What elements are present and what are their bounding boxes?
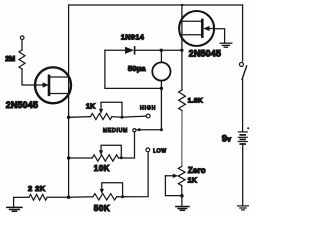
wire terminal to 2M xyxy=(21,40,23,50)
HIGH contact terminal xyxy=(146,114,150,118)
node zero pot bottom junction xyxy=(180,194,184,198)
svg-text:MEDIUM: MEDIUM xyxy=(103,128,128,134)
svg-text:Zero: Zero xyxy=(188,166,206,175)
wire 2.2K to rail xyxy=(47,196,68,198)
50K wiper loop xyxy=(102,183,123,197)
transistor Q1 2N5045 circle xyxy=(35,67,71,103)
svg-text:2N5045: 2N5045 xyxy=(189,48,221,58)
node junction rail/diode wire xyxy=(180,49,183,52)
50K wiper arrow xyxy=(101,184,103,189)
potentiometer R5 10K zigzag xyxy=(92,155,118,161)
ground (Q2 gate) xyxy=(220,43,232,47)
MEDIUM contact terminal xyxy=(133,129,136,132)
node 50K loop junction xyxy=(121,195,124,198)
transistor Q2 2N5045 circle xyxy=(179,11,214,46)
wire to left ground xyxy=(13,197,15,207)
node rail/10K junction xyxy=(67,156,70,159)
meter M1 50ua top lead xyxy=(160,50,162,62)
svg-text:50K: 50K xyxy=(94,204,110,213)
svg-text:HIGH: HIGH xyxy=(140,105,156,111)
wire zero pot bottom xyxy=(181,186,183,196)
transistor Q1 source lead xyxy=(49,93,69,95)
10K wiper arrow xyxy=(100,146,102,150)
wire rail bottom to 50K xyxy=(69,196,93,198)
wire bottom left xyxy=(14,196,29,198)
transistor Q2 gate lead with arrow xyxy=(209,28,214,30)
wire Q2 gate to ground xyxy=(214,29,225,43)
svg-text:1K: 1K xyxy=(188,176,198,185)
resistor R1 2M zigzag xyxy=(19,50,25,69)
svg-text:LOW: LOW xyxy=(153,148,167,154)
svg-text:1.8K: 1.8K xyxy=(188,97,203,104)
wire right FET drain/source column xyxy=(181,5,183,90)
wire left rail (drain-source column of Q1) xyxy=(68,5,70,197)
node rail/1K junction xyxy=(67,116,70,119)
transistor Q2 drain lead xyxy=(182,20,202,22)
wire switch to battery xyxy=(242,80,244,131)
svg-text:2M: 2M xyxy=(5,54,15,63)
diode D1 cathode bar xyxy=(134,47,136,54)
diode D1 1N914 triangle xyxy=(125,47,134,54)
wire diode-loop left side xyxy=(105,50,161,88)
svg-text:50μa: 50μa xyxy=(128,64,146,73)
meter M1 bottom lead xyxy=(160,81,162,89)
1K wiper arrow xyxy=(100,103,102,109)
node medium wire corner dot xyxy=(160,128,163,131)
wire 50K to LOW contact xyxy=(117,152,149,197)
node 1K loop junction xyxy=(121,116,124,119)
transistor Q1 gate lead with arrow xyxy=(35,84,43,86)
potentiometer R4 1K zigzag xyxy=(91,113,113,119)
transistor Q2 channel bar xyxy=(201,20,204,37)
wire rail to 10K xyxy=(69,157,93,159)
wire meter bottom down to selector pole xyxy=(136,88,161,129)
svg-text:2N5045: 2N5045 xyxy=(6,100,38,110)
meter M1 50ua circle xyxy=(152,62,170,80)
svg-text:1K: 1K xyxy=(86,102,96,111)
node diode/meter top junction xyxy=(160,49,163,52)
wire 1.8K to zero pot xyxy=(181,111,183,167)
wire rail to 1K xyxy=(69,116,91,119)
resistor R2 1.8K zigzag xyxy=(179,90,186,111)
svg-text:2 2K: 2 2K xyxy=(28,184,46,193)
ground (bottom left) xyxy=(7,207,22,211)
wire 1K to HIGH contact xyxy=(112,116,146,117)
ground (battery negative) xyxy=(238,206,249,210)
switch S1 upper contact xyxy=(242,5,244,61)
wire top rail xyxy=(69,4,243,6)
wire 2M to gate of Q1 xyxy=(22,69,35,85)
potentiometer R3 Zero 1K zigzag xyxy=(178,167,185,186)
probe input terminal xyxy=(20,36,24,40)
node meter bottom junction xyxy=(160,87,163,90)
transistor Q1 drain lead xyxy=(49,76,69,78)
battery B1 9v plates xyxy=(238,132,247,144)
wire meter node to right rail xyxy=(161,49,182,51)
resistor R7 2.2K zigzag xyxy=(29,194,47,200)
transistor Q1 channel bar xyxy=(48,76,51,95)
svg-text:10K: 10K xyxy=(94,164,110,173)
node 10K loop junction xyxy=(120,156,123,159)
battery plus mark xyxy=(247,127,249,129)
ground (center bottom) xyxy=(176,207,189,211)
LOW contact terminal xyxy=(146,148,150,152)
wire diode cathode to meter node xyxy=(135,49,162,51)
svg-text:9v: 9v xyxy=(222,134,231,145)
node top-rail / right-FET drain junction xyxy=(181,4,183,6)
wire 10K to MEDIUM contact xyxy=(119,132,135,158)
transistor Q2 source lead xyxy=(182,34,202,36)
svg-text:1N914: 1N914 xyxy=(121,33,145,42)
wire zero pot wiper to bottom xyxy=(165,176,182,196)
node rail bottom junction xyxy=(67,196,70,199)
potentiometer R6 50K zigzag xyxy=(93,194,117,200)
switch S1 blade xyxy=(242,66,247,80)
1K wiper loop xyxy=(101,102,122,117)
10K wiper loop xyxy=(101,145,121,158)
node selector pole dot xyxy=(138,128,141,131)
zero pot wiper arrow xyxy=(165,175,172,177)
diode D1 1N914 anode wire xyxy=(105,49,125,51)
wire battery to bottom ground xyxy=(242,144,244,205)
wire to center ground xyxy=(181,196,183,206)
